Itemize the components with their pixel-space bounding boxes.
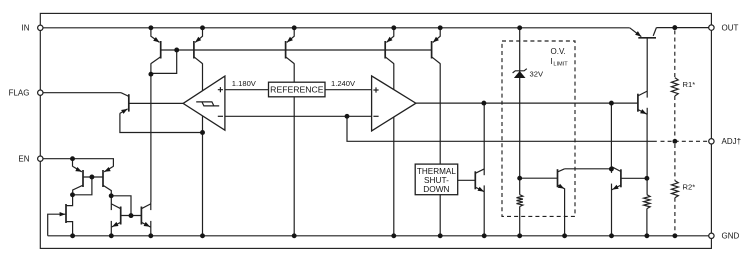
node OV base [517,176,522,181]
wire R2 dashed bottom [674,198,676,233]
transistor Q14 enable mirror left (PNP) [73,166,83,194]
zener diode D1 32V [513,69,527,78]
node IN-zener [517,25,522,30]
node Q14 collector [70,192,75,197]
thermal shutdown box [415,164,458,195]
transistor Q1 (PNP) [151,28,161,64]
op-amp U2 error amplifier triangle [372,76,416,131]
node mirror bases [129,213,134,218]
node ADJ divider [672,139,677,144]
pin IN [38,25,43,30]
svg-text:REFERENCE: REFERENCE [270,84,324,94]
transistor Q8 overvoltage limit (NPN) [558,169,565,236]
svg-text:R2*: R2* [683,182,696,191]
svg-text:LIMIT: LIMIT [553,61,568,67]
node drive-limit [609,101,614,106]
resistor R2* [672,181,679,198]
svg-text:O.V.: O.V. [551,47,566,56]
resistor OV divider [517,195,523,207]
node IN-Q5 [438,25,443,30]
wire OV transistor base link [520,177,558,179]
wire feedback node to ADJ line [347,116,657,141]
node EN mirror base [89,175,94,180]
wire current limit collector rail [565,168,612,170]
transistor Q4 (PNP) [385,28,394,64]
svg-text:R1*: R1* [683,80,696,89]
wire EN left branch down [72,159,74,167]
svg-text:GND: GND [722,232,740,241]
wire Q5 collector bus through thermal box to ground [439,63,441,235]
wire base drive sense vertical [610,103,612,169]
transistor Q13 mirror right (NPN) [141,202,150,236]
node IN-Q4 [391,25,396,30]
node GND-i [517,233,522,238]
wire zener branch upper [519,28,521,195]
node GND-l [644,233,649,238]
transistor Q2 (PNP) [194,28,203,64]
wire driver emitter to resistor [646,114,648,195]
wire shared minus input line [225,115,372,117]
node IN-Q3 [292,25,297,30]
wire node A diode-connect link Q1 [151,50,177,73]
transistor Q7 thermal shutdown (NPN) [475,103,484,236]
pin OUT [709,25,714,30]
wire comparator U1 output to Q6 base [129,102,184,104]
node GND-k [609,233,614,238]
wire thermal box to Q7 base [458,179,476,181]
svg-text:1.180V: 1.180V [232,79,257,88]
wire startup loop [48,214,66,236]
node GND-a [70,233,75,238]
U2 minus sign [373,115,378,117]
wire mirror base link [121,215,142,217]
node limit base [644,176,649,181]
transistor Q16 startup (lateral) [60,195,73,236]
node B flag tail [200,130,205,135]
pin ADJ [709,139,714,144]
wire Q2 collector bus down to ground [202,63,204,235]
wire IN rail [40,27,629,29]
node GND-f [391,233,396,238]
svg-text:IN: IN [22,24,30,33]
wire emitter resistor to ground [646,209,648,236]
wire zener branch lower [519,207,521,236]
U1 minus sign [218,115,223,117]
svg-text:I: I [551,57,553,66]
node ADJ dashed link [661,140,709,142]
U1 hysteresis glyph [196,102,219,106]
resistor driver emitter [644,195,650,209]
transistor Q6 flag output (PNP) [120,93,129,114]
svg-text:1.240V: 1.240V [331,79,356,88]
transistor Q15 enable mirror right (PNP) [103,166,113,195]
svg-text:FLAG: FLAG [9,89,30,98]
op-amp U1 flag comparator triangle [183,76,225,130]
wire Q10 collector node to mirror bases [111,196,131,216]
node GND-d [200,233,205,238]
wire common base rail of top PNPs [161,49,432,51]
wire EN line [40,159,113,167]
svg-text:OUT: OUT [722,24,739,33]
wire U1 plus input 1.180V [225,89,269,91]
dashed box O.V. I LIMIT [502,41,575,216]
wire enable mirror base link [83,176,103,178]
node GND-e [292,233,297,238]
node GND-c [148,233,153,238]
transistor Q17 pass (PNP) [630,28,657,38]
wire Q3 collector bus through reference to ground [293,63,295,235]
wire GND rail [48,235,712,237]
U2 plus sign [373,87,378,92]
node GND-g [438,233,443,238]
node limit collector [609,167,614,172]
wire current limit base link [621,177,647,179]
node IN-Q1 [148,25,153,30]
svg-text:32V: 32V [530,69,544,78]
wire OUT rail [656,27,711,29]
resistor R1* [671,78,678,96]
node GND-h [482,233,487,238]
node drive-thermal [481,101,486,106]
svg-text:DOWN: DOWN [423,184,449,194]
wire Q6 emitter return to node B [120,113,203,132]
node GND-j [562,233,567,238]
node GND-m [672,233,677,238]
transistor Q11 driver (NPN) [638,38,647,115]
wire FLAG line [40,92,121,94]
transistor Q5 (PNP) [432,28,441,64]
node EN-Q14 [70,156,75,161]
transistor Q3 (PNP) [286,28,295,64]
transistor Q12 mirror left (NPN) [111,196,120,236]
transistor Q10 current limit (NPN) [612,167,621,236]
node base-rail diode tap [174,48,179,53]
node IN-Q2 [200,25,205,30]
node Q1 diode collector [148,72,153,77]
svg-text:ADJ†: ADJ† [722,137,742,146]
U1 plus sign [218,87,223,92]
wire EN mirror base link [73,177,92,195]
reference box [269,82,326,97]
pin EN [38,156,43,161]
svg-text:EN: EN [18,155,29,164]
pin GND [709,233,714,238]
node Q15 collector [109,193,114,198]
wire R1 dashed bottom [674,96,676,139]
wire Q1 collector bus down to Q9 [150,63,152,202]
wire R1 dashed top [674,30,676,77]
node OUT-R1 [672,25,677,30]
wire U2 output line [416,102,638,104]
wire Q4 collector bus through error amp to ground [393,63,395,235]
wire R2 dashed top [674,144,676,181]
node GND-b [109,233,114,238]
pin FLAG [38,90,43,95]
wire reference to U2 plus input 1.240V [325,89,372,91]
node feedback minus [345,114,350,119]
